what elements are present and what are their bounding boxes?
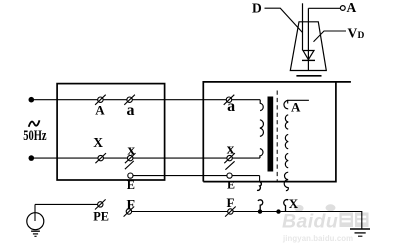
core dashed line xyxy=(276,91,278,183)
secondary winding top hook xyxy=(284,100,288,109)
primary winding bottom hook xyxy=(260,149,263,159)
D pointer line xyxy=(265,8,303,32)
svg-text:E: E xyxy=(127,178,135,192)
diode lead down xyxy=(307,60,309,70)
terminal F (left) xyxy=(126,209,131,214)
rising hook from bottom wire (left) xyxy=(258,200,263,212)
terminal a (right box) xyxy=(226,97,231,102)
wire to terminal A xyxy=(308,7,340,9)
terminal x (left box) xyxy=(128,155,133,160)
terminal X (left box) xyxy=(98,155,103,160)
link slash below x (right box) xyxy=(225,161,234,169)
svg-text:X: X xyxy=(93,135,103,150)
svg-text:X: X xyxy=(289,196,299,211)
svg-text:a: a xyxy=(127,102,135,119)
earth ground right xyxy=(350,228,370,230)
test transformer box (right) xyxy=(203,82,351,182)
transformer core bar xyxy=(268,97,274,172)
junction dot right xyxy=(276,209,280,213)
primary winding middle bumps xyxy=(260,120,264,137)
VD pointer line xyxy=(314,31,347,42)
control box (left) xyxy=(57,84,165,180)
svg-text:D: D xyxy=(252,0,262,15)
secondary winding bottom bumps crossing box edge xyxy=(284,172,288,190)
AC source bottom dot xyxy=(29,155,35,161)
svg-text:A: A xyxy=(95,103,105,118)
bottom F-X wire xyxy=(129,212,362,229)
rectifier left lead xyxy=(302,3,304,50)
terminal A (left box) xyxy=(98,97,103,102)
PE wire xyxy=(35,203,100,205)
earth electrode symbol xyxy=(34,204,36,221)
E wire row xyxy=(130,175,259,177)
terminal E (right box) xyxy=(227,173,232,178)
svg-text:V: V xyxy=(348,26,358,41)
diode inside bushing xyxy=(303,51,314,60)
svg-text:jingyan.baidu.com: jingyan.baidu.com xyxy=(282,234,353,243)
svg-text:a: a xyxy=(227,98,235,115)
terminal A circle xyxy=(340,6,345,11)
diode cathode bar xyxy=(302,59,315,61)
svg-text:E: E xyxy=(227,178,235,192)
terminal E (left box) xyxy=(128,173,133,178)
link slash below x xyxy=(125,161,134,169)
svg-text:Baidu: Baidu xyxy=(282,210,338,232)
terminal x (right box) xyxy=(227,155,232,160)
wire E drop to box bottom xyxy=(259,176,261,182)
terminal PE xyxy=(98,202,103,207)
secondary HV lead to A xyxy=(288,100,309,103)
svg-text:A: A xyxy=(291,100,301,115)
svg-text:D: D xyxy=(358,31,365,41)
secondary winding bumps xyxy=(285,115,288,129)
terminal F (right) xyxy=(228,209,233,214)
base line under bushing xyxy=(296,75,321,77)
watermark Baidu logo text xyxy=(282,204,369,232)
terminal a (left box) xyxy=(127,97,132,102)
junction dot left xyxy=(258,209,262,213)
svg-text:PE: PE xyxy=(93,209,109,223)
top wire A-a row xyxy=(31,99,260,101)
primary winding top hook xyxy=(260,100,263,111)
rectifier right lead xyxy=(307,8,309,60)
bushing trapezoid VD xyxy=(290,22,326,71)
hanging hook below box (left) xyxy=(257,182,261,190)
svg-text:A: A xyxy=(347,0,357,15)
rising hook from bottom wire (right, X tail) xyxy=(284,200,289,212)
tilde symbol xyxy=(29,120,40,127)
X-x wire row xyxy=(31,157,260,159)
svg-text:F: F xyxy=(227,195,235,210)
AC source top dot xyxy=(29,97,35,103)
svg-text:50Hz: 50Hz xyxy=(23,126,47,143)
